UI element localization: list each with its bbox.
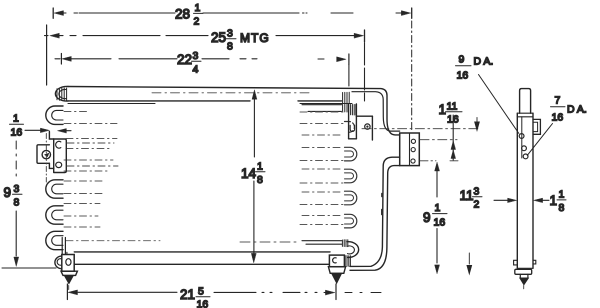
- hidden tube centerlines left side: [64, 112, 160, 241]
- leader 9/16 DIA: [479, 75, 519, 134]
- row tube into omega upper line: [302, 240, 342, 242]
- leader 7/16 DIA: [527, 124, 552, 156]
- dim 22-3/4 right arrowhead: [337, 57, 346, 62]
- dim 14-1/8 lower shaft: [253, 181, 255, 253]
- bottom left fitting: [2, 238, 77, 290]
- wire row centerline: [300, 123, 343, 125]
- dim MTG right tick: [364, 30, 366, 42]
- wire top tube second line: [68, 103, 352, 105]
- datum line bottom left: [2, 267, 56, 269]
- wire row centerline: [300, 182, 343, 184]
- top tube row 1: [55, 86, 352, 103]
- dim 11-3/4 top arrow: [475, 118, 480, 131]
- extension line left (28-1/2 and MTG): [46, 25, 48, 85]
- wire row centerline: [64, 226, 100, 228]
- wire bottom tube lower line: [74, 263, 329, 265]
- fitting hatch: [345, 256, 350, 267]
- return bend L2: [46, 180, 63, 198]
- return bend L4: [46, 231, 63, 249]
- dim 14-1/8 up arrowhead: [252, 90, 257, 99]
- top tube centerline: [152, 92, 310, 94]
- side view bottom right tab: [533, 260, 536, 264]
- dim 11-3/4 bottom arrow: [467, 253, 472, 274]
- side hole A: [519, 134, 524, 139]
- side view protrusion inner: [533, 122, 538, 131]
- wire top edge inner corner into header drop inner wall: [352, 92, 400, 131]
- wire row2 upper line: [302, 104, 342, 106]
- fitting flange: [61, 271, 77, 275]
- dim 9-3/8 down arrowhead: [14, 257, 19, 266]
- wire row centerline: [302, 134, 343, 136]
- svg-text:7: 7: [555, 95, 561, 107]
- dim 22-3/4 left tick: [60, 54, 62, 65]
- return bend L1: [46, 106, 63, 124]
- drain tip tail: [68, 286, 70, 290]
- body notch horizontal: [356, 115, 372, 117]
- dim 9-1/16 up arrowhead: [435, 162, 440, 171]
- svg-text:2: 2: [194, 16, 200, 28]
- wire row centerline: [302, 215, 343, 217]
- bracket plate right edge: [355, 104, 357, 139]
- wire row centerline: [300, 160, 343, 162]
- dim 9-1/16 upper shaft: [436, 170, 438, 197]
- bottom right fitting: [328, 255, 350, 283]
- bracket tab edge: [49, 132, 53, 140]
- svg-text:11: 11: [447, 101, 458, 113]
- dim 28-1/2 line: [63, 12, 402, 14]
- dim MTG left arrowhead: [50, 33, 59, 38]
- bracket hole vertical centerline: [45, 134, 47, 183]
- svg-text:25: 25: [211, 30, 226, 45]
- extension line MTG right: [364, 43, 366, 101]
- dim 1-11/16 arrowheads: [451, 141, 456, 159]
- svg-text:MTG: MTG: [240, 31, 270, 45]
- block outline: [400, 133, 420, 166]
- left mounting bracket: [37, 132, 118, 183]
- wire row centerline: [64, 123, 117, 125]
- side view drain tip tail: [523, 286, 525, 289]
- bracket mounting hole: [42, 150, 50, 158]
- svg-text:8: 8: [227, 41, 233, 53]
- left serpentine U-bends: [46, 106, 63, 250]
- side view bottom left tab: [514, 260, 518, 265]
- port centerline B: [420, 139, 457, 141]
- bottom right omega return bend: [302, 240, 359, 258]
- dim 14-1/8 upper shaft: [253, 98, 255, 157]
- svg-text:14: 14: [241, 166, 257, 181]
- bracket right plate: [54, 139, 67, 173]
- dim 1-1/8 left arrowhead: [508, 198, 517, 202]
- svg-text:1: 1: [195, 2, 201, 14]
- drain cone left: [64, 275, 73, 283]
- side view drain cone: [520, 278, 528, 285]
- side view inner wall: [521, 117, 523, 158]
- svg-text:22: 22: [177, 52, 192, 67]
- port centerline A long: [362, 128, 480, 130]
- svg-text:9: 9: [459, 54, 465, 66]
- svg-text:1: 1: [13, 113, 19, 125]
- svg-text:16: 16: [11, 127, 23, 139]
- extension line right 28-1/2: [411, 21, 413, 131]
- return bend L3: [46, 206, 63, 224]
- wire tube2 right wall: [350, 166, 400, 271]
- side view left edge: [516, 113, 518, 268]
- wire top tube bottom line: [68, 100, 342, 102]
- return bend R0 partial: [345, 122, 355, 133]
- dim 1-11/16 shaft: [452, 115, 454, 160]
- bracket oval hole: [56, 162, 62, 167]
- wire row centerline: [300, 204, 343, 206]
- tube centerline behind bracket lower: [67, 165, 118, 167]
- side view joint lines: [517, 113, 533, 117]
- svg-text:3: 3: [193, 50, 199, 62]
- block inner line: [409, 133, 411, 166]
- wire row centerline: [300, 111, 343, 113]
- wire row centerline: [66, 240, 160, 242]
- svg-text:4: 4: [193, 64, 199, 76]
- port centerline C: [420, 160, 458, 162]
- svg-text:28: 28: [175, 7, 190, 22]
- row2 right end hatch: [343, 104, 347, 112]
- side hole B: [522, 146, 527, 151]
- return bend inner: [348, 246, 355, 254]
- row tube into omega lower line: [306, 243, 342, 245]
- wire bottom tube upper line: [74, 251, 330, 253]
- fitting top tick: [66, 252, 68, 254]
- bracket plate left edge: [348, 104, 350, 139]
- side view right edge: [532, 113, 534, 268]
- svg-text:9: 9: [4, 185, 12, 200]
- svg-text:1: 1: [439, 102, 447, 117]
- svg-text:16: 16: [434, 217, 446, 229]
- return bend R2: [345, 169, 357, 183]
- side view neck: [520, 274, 528, 278]
- drain cone right: [332, 273, 342, 283]
- fitting C hole: [333, 258, 337, 263]
- wire row centerline: [64, 215, 98, 217]
- svg-text:1: 1: [435, 202, 441, 214]
- wire row centerline: [64, 159, 113, 161]
- dim 9-3/8 lower shaft: [15, 211, 17, 256]
- block port hole 1: [411, 139, 415, 143]
- dim 25-3/8 MTG line: [45, 35, 356, 37]
- svg-text:D A.: D A.: [567, 104, 587, 116]
- dim 22-3/4 right tick: [348, 54, 350, 65]
- return bend outer: [347, 242, 358, 258]
- return bend R4: [345, 214, 357, 228]
- dim 14-1/8 down arrowhead: [251, 253, 256, 262]
- svg-text:1: 1: [559, 189, 565, 201]
- side view: [514, 89, 541, 289]
- wire row centerline: [300, 224, 343, 226]
- body notch vertical: [371, 116, 373, 140]
- bracket step: [49, 163, 53, 168]
- right serpentine return bends: [345, 122, 357, 228]
- extension line 22-3/4 right: [348, 65, 350, 87]
- mounting hole dot: [366, 126, 368, 128]
- wire row centerline: [302, 168, 343, 170]
- hidden tube centerlines right side: [240, 112, 343, 242]
- condenser body outline: [68, 87, 400, 265]
- svg-text:3: 3: [474, 186, 480, 198]
- svg-text:1: 1: [257, 161, 263, 173]
- tube2 wall ticks: [381, 194, 383, 215]
- dim 21-5/16 right dashes: [345, 292, 381, 294]
- wire row centerline: [64, 180, 104, 182]
- dim 22-3/4 line: [55, 58, 340, 60]
- svg-text:16: 16: [552, 112, 564, 124]
- side view bottom edge: [517, 267, 533, 269]
- dim 1/16 left line: [25, 129, 41, 131]
- dim 21-5/16 line: [78, 291, 326, 293]
- svg-text:3: 3: [227, 28, 233, 40]
- wire top edge outer into header drop outer wall: [68, 87, 400, 135]
- dim 28-1/2 left tick: [52, 8, 54, 18]
- dim 9-3/8 upper shaft: [15, 141, 17, 176]
- fitting block: [329, 255, 344, 267]
- wire row centerline: [66, 148, 112, 150]
- svg-text:16: 16: [457, 70, 469, 82]
- svg-text:16: 16: [197, 299, 209, 308]
- wire tube2 left wall: [350, 157, 400, 266]
- fitting cap inner: [57, 259, 61, 266]
- svg-text:D A.: D A.: [474, 56, 494, 68]
- svg-text:3: 3: [14, 183, 20, 195]
- tube centerline behind bracket upper: [67, 142, 114, 144]
- dim 21-5/16 right tick: [335, 284, 337, 300]
- svg-text:1: 1: [550, 193, 558, 208]
- fitting oval hole: [66, 259, 71, 266]
- top right mounting bracket: [349, 104, 373, 140]
- side view collar: [515, 269, 532, 274]
- dim 1-1/8 right arrowhead: [534, 198, 543, 202]
- dim 9-1/16 lower shaft: [436, 229, 438, 264]
- svg-text:8: 8: [559, 202, 565, 214]
- dim 1-1/8 left line: [494, 199, 508, 201]
- svg-text:5: 5: [198, 286, 204, 298]
- bracket hole center dot: [45, 153, 49, 156]
- bracket plate hatch: [351, 105, 356, 116]
- serpentine row 2 right end: [302, 104, 347, 112]
- wire row centerline: [64, 193, 102, 195]
- side view right protrusion: [533, 119, 540, 134]
- wire row centerline: [64, 203, 100, 205]
- dim 28-1/2 right arrowhead: [401, 11, 410, 16]
- block port hole 3: [411, 159, 415, 163]
- mounting hole MTG: [365, 124, 370, 129]
- tube drop into fitting: [62, 238, 65, 255]
- dim 9-1/16 down arrowhead: [435, 265, 440, 274]
- svg-text:11: 11: [460, 188, 474, 203]
- wire top tube left U-bend inner: [59, 89, 66, 98]
- dim 1-1/8 right line: [542, 199, 549, 201]
- fitting flange: [328, 267, 345, 274]
- svg-text:16: 16: [447, 114, 459, 126]
- omega row end hatch: [342, 240, 347, 247]
- side hole C: [523, 154, 528, 159]
- svg-text:8: 8: [257, 174, 263, 186]
- wire row centerline: [64, 111, 90, 113]
- dim 1/16 right arrowhead into bracket: [40, 128, 49, 132]
- wire row centerline: [66, 138, 117, 140]
- wire row centerline: [302, 191, 343, 193]
- block port hole 2: [411, 148, 415, 152]
- wire top tube left U-bend outer: [55, 86, 68, 101]
- bracket C cutout: [56, 141, 61, 148]
- wire row centerline: [240, 241, 300, 243]
- dim 21-5/16 left tick: [66, 284, 68, 300]
- svg-text:21: 21: [180, 287, 195, 302]
- return bend R1: [345, 147, 357, 161]
- fitting cap outer: [55, 256, 62, 269]
- wire row centerline: [64, 170, 110, 172]
- dim 22-3/4 left arrowhead: [62, 56, 71, 61]
- top tube left end hatch: [57, 88, 67, 101]
- svg-text:9: 9: [423, 210, 431, 225]
- dim 1/16 facing tail: [65, 130, 71, 132]
- wire row centerline: [302, 147, 343, 149]
- return bend R3: [345, 191, 357, 205]
- svg-text:8: 8: [14, 197, 20, 209]
- fitting block: [62, 255, 74, 272]
- dim 21-5/16 right arrowhead: [325, 290, 334, 295]
- side view top tab: [520, 89, 531, 114]
- dim 1/16 facing arrowhead: [58, 129, 67, 133]
- wire row2 lower line: [308, 110, 342, 112]
- bracket U-hole: [350, 125, 354, 131]
- dim 28-1/2 right tick: [411, 8, 413, 18]
- tube 2 from block to bottom fitting: [350, 157, 400, 270]
- svg-text:2: 2: [474, 199, 480, 211]
- dim 28-1/2 left arrowhead: [54, 11, 63, 16]
- bracket plate bottom: [349, 138, 357, 140]
- connector block: [400, 133, 420, 166]
- dim 21-5/16 left arrowhead: [68, 290, 77, 295]
- dim MTG right arrowhead: [354, 33, 363, 38]
- bracket left plate: [37, 145, 49, 164]
- top tube right end hatch row1: [343, 92, 350, 103]
